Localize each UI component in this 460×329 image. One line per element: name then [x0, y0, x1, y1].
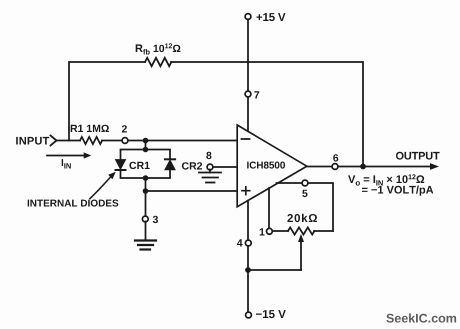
diode CR2 pointing up [165, 160, 175, 170]
label Iin [62, 159, 71, 168]
junction dot box top [143, 147, 149, 153]
wire output [307, 166, 432, 168]
label ICH8500 [247, 162, 285, 169]
label CR1 [129, 162, 149, 169]
pin 1 circle [267, 228, 273, 234]
label pin 5 [302, 190, 307, 197]
wire diode box [121, 150, 171, 179]
label pin 2 [122, 125, 127, 132]
wire pin3 to ground [145, 222, 147, 241]
arrow Iin [47, 155, 84, 157]
label Rfb 10^12 ohm [136, 43, 181, 54]
output arrowhead [430, 163, 439, 170]
pin 7 circle [245, 91, 251, 97]
op-amp inverting input minus sign [242, 138, 250, 140]
label R1 1M ohm [71, 125, 109, 132]
label Vo equation line 2 [362, 186, 433, 196]
wire pin 1 stub and pot ends [269, 188, 333, 231]
junction dot non-inverting rail [143, 188, 149, 194]
wire input line [57, 140, 237, 142]
label 20k ohm [287, 214, 317, 222]
wire +15V supply vertical [247, 17, 249, 132]
label pin 4 [237, 239, 243, 246]
label INPUT [16, 137, 49, 145]
label -15 V [256, 310, 286, 318]
label CR2 [182, 162, 202, 169]
label pin 3 [153, 216, 158, 223]
ground symbol (pin 8) [199, 172, 221, 174]
watermark SeekIC.com [386, 313, 456, 322]
pin 6 circle [332, 164, 338, 170]
potentiometer 20k zigzag [288, 227, 314, 234]
label INTERNAL DIODES [28, 200, 119, 207]
wire pin 4 and -15V vertical [247, 201, 249, 316]
label pin 1 [260, 228, 265, 235]
wire diode-box top stub [145, 141, 147, 150]
label OUTPUT [396, 152, 440, 160]
label +15 V [257, 13, 286, 21]
junction dot box bottom [143, 175, 149, 181]
pin 5 circle [302, 180, 308, 186]
resistor Rfb zigzag [145, 58, 171, 66]
wire pin 8 [210, 166, 237, 168]
wire pin 5 loop [277, 183, 334, 231]
input terminal chevron [51, 136, 57, 146]
resistor R1 zigzag [80, 137, 102, 144]
op-amp U1 ICH8500 triangle [237, 125, 307, 207]
junction dot wiper / negative rail [245, 267, 251, 273]
terminal -15V circle [246, 312, 252, 318]
arrow pointing to internal diodes [90, 177, 111, 199]
pin 8 circle [207, 164, 213, 170]
wire wiper to negative rail [248, 269, 301, 271]
junction dot output node [360, 164, 366, 170]
op-amp non-inverting input plus sign [242, 187, 250, 195]
label pin 6 [333, 154, 338, 161]
wire pin3 / non-inverting rail [146, 178, 238, 218]
terminal +15V circle [245, 14, 251, 20]
pin 3 circle [142, 216, 148, 222]
label pin 8 [206, 152, 211, 159]
node 2 circle [122, 138, 128, 144]
wire feedback loop: up from input node, across top, down to output node [69, 62, 363, 167]
diode CR1 pointing down [116, 160, 126, 170]
junction dot inverting rail [143, 138, 149, 144]
ground symbol (pin 3) [135, 239, 156, 241]
pin 4 circle [245, 240, 251, 246]
label Vo equation line 1 [348, 174, 424, 185]
wire pin8 ground stub [209, 170, 211, 173]
potentiometer wiper arrow [300, 241, 302, 270]
label pin 7 [254, 91, 259, 98]
